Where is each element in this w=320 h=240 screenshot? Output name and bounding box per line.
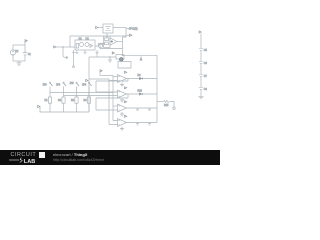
wire U3 output (127, 78, 158, 80)
wire U6 inputs (109, 121, 118, 125)
switch JP3 blade (50, 83, 53, 86)
capacitor C8 (199, 88, 203, 90)
wire (70, 36, 126, 47)
wire (122, 37, 124, 55)
wire junction (109, 56, 111, 58)
wire output (157, 101, 164, 103)
resistor R7 (105, 38, 109, 41)
CircuitLab logo (11, 152, 37, 158)
svg-text:JP3: JP3 (43, 83, 48, 86)
wire (56, 46, 70, 48)
capacitor C6 (199, 62, 203, 64)
wire (13, 60, 25, 62)
node flag p8 (38, 105, 40, 107)
wire U5 output (127, 107, 158, 109)
node flag p9 (199, 31, 201, 33)
op-amp U2 (104, 36, 111, 47)
wire summing bus (156, 55, 158, 122)
wire (49, 87, 51, 98)
diode D1 (90, 44, 93, 47)
switch JP6 (82, 82, 92, 112)
right reference chain (198, 31, 207, 99)
resistor R8 (105, 42, 109, 45)
svg-text:R10: R10 (138, 89, 143, 92)
ground stub B (95, 50, 98, 57)
ground (120, 98, 124, 102)
wire U6 output (127, 122, 158, 124)
wire (63, 103, 65, 112)
wire (88, 87, 90, 98)
wire (103, 43, 105, 46)
wire (200, 90, 202, 97)
wire U4 input (113, 91, 118, 93)
wire (89, 78, 109, 80)
wire junction (62, 46, 64, 48)
wire feedback (100, 45, 123, 49)
wire (89, 56, 116, 58)
ground (120, 127, 124, 131)
resistor R3 (75, 97, 78, 103)
node flag p1 (24, 42, 26, 45)
svg-text:JP2(2): JP2(2) (129, 27, 138, 31)
wire (106, 33, 108, 37)
ground (198, 96, 203, 99)
wire (117, 41, 123, 43)
wire input bus A (112, 76, 114, 121)
resistor R4 (87, 97, 90, 103)
transistor Q2 (85, 43, 89, 47)
node flag p6 (99, 72, 101, 76)
switch JP4 (56, 82, 66, 112)
node flag (125, 71, 127, 73)
wire input bus B (108, 79, 110, 125)
svg-text:LAB: LAB (23, 159, 35, 165)
capacitor C1 (23, 53, 27, 55)
capacitor C5 (199, 49, 203, 51)
ground stub C (75, 50, 78, 54)
op-amp U5 (118, 104, 127, 112)
wire (13, 44, 25, 46)
node flag (125, 101, 127, 103)
ground (120, 112, 124, 116)
net JP2(2) (123, 28, 127, 38)
svg-text:JP5: JP5 (70, 82, 75, 85)
capacitor C2 (136, 108, 139, 111)
wire (63, 47, 67, 58)
capacitor C4 (136, 123, 139, 126)
wire (99, 36, 108, 46)
ground (120, 83, 124, 87)
wire (200, 64, 202, 75)
wire (12, 45, 14, 61)
wire bus (64, 95, 118, 97)
wire (70, 46, 99, 47)
wire (24, 45, 26, 61)
op-amp U3 (118, 75, 127, 83)
wire (76, 103, 78, 112)
switch JP4 blade (64, 83, 67, 86)
wire (170, 102, 175, 108)
diode pair D2 (139, 77, 142, 80)
wire (49, 103, 51, 112)
node flag p10 (112, 52, 114, 54)
footer bar (0, 150, 220, 165)
wire feedback loop 1 (96, 79, 128, 93)
ground (108, 57, 112, 63)
switch JP3 (43, 82, 53, 112)
wire (113, 27, 126, 29)
node flag p4 (126, 34, 130, 36)
wire U3 inputs (109, 77, 118, 81)
diode pair D3 (139, 92, 142, 95)
ground stub A (83, 50, 86, 54)
wire U4 output (127, 93, 158, 95)
resistor R1 (48, 97, 51, 103)
node flag p2 (54, 46, 56, 48)
capacitor C3 (148, 108, 151, 111)
resistor R15 (164, 100, 170, 102)
svg-text:JP6: JP6 (82, 83, 87, 86)
wire U5 input (113, 105, 118, 107)
wire (88, 57, 90, 112)
wire (98, 27, 103, 29)
op-amp U4 (118, 90, 127, 98)
wire loop (118, 62, 131, 69)
speaker cone (120, 58, 124, 62)
node flag (125, 115, 127, 117)
op-amp U6 (118, 119, 127, 127)
wire (200, 77, 202, 88)
capacitor C9 (148, 123, 151, 126)
voltage source V1 (10, 50, 15, 55)
ground (16, 61, 21, 65)
wire (100, 75, 113, 77)
capacitor C7 (199, 75, 203, 77)
wire (76, 87, 78, 98)
arrow terminal (67, 56, 69, 58)
switch JP5 blade (77, 83, 80, 86)
node terminal (73, 66, 75, 68)
footer text (53, 152, 87, 157)
switch JP5 (70, 82, 80, 112)
node flag p7 (86, 79, 88, 81)
subcircuit box Q1 Q2 (75, 40, 95, 50)
node terminal (173, 107, 175, 109)
wire (88, 103, 90, 112)
node flag p5 (140, 56, 142, 58)
wire feedback loop 2 (96, 94, 128, 110)
svg-text:R15: R15 (164, 104, 169, 107)
transistor Q1 (80, 43, 84, 47)
speaker box K1 (116, 55, 124, 59)
resistor R3 (76, 44, 78, 49)
voltage source V2 (103, 24, 113, 33)
wire bus (50, 92, 113, 94)
switch JP6 blade (89, 83, 92, 86)
wire (200, 51, 202, 62)
svg-text:JP4: JP4 (56, 83, 61, 86)
wire (123, 54, 158, 56)
wire bottom bus (40, 107, 89, 113)
wire (63, 87, 65, 98)
node flag (125, 87, 127, 89)
capacitor to node (72, 50, 75, 66)
resistor R2 (62, 97, 65, 103)
transistor Q3 (99, 44, 103, 48)
node flag p3 (96, 26, 98, 28)
